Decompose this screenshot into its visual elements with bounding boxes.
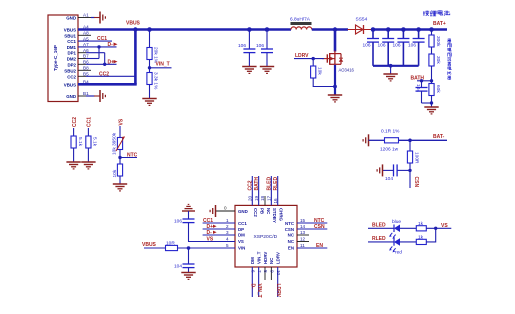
svg-text:SBU1: SBU1 — [64, 33, 76, 38]
junction bank node 3 — [401, 27, 406, 32]
svg-text:DM: DM — [250, 257, 255, 264]
svg-text:11: 11 — [300, 243, 305, 248]
svg-text:VBUS: VBUS — [142, 242, 157, 248]
resistor 20k 1% — [147, 47, 159, 64]
svg-text:CSN: CSN — [285, 227, 294, 232]
resistor 60k — [429, 84, 441, 96]
wire gate to resistor — [312, 59, 314, 66]
svg-text:RLED: RLED — [372, 236, 386, 242]
connector pin stubs and numbers — [78, 18, 91, 97]
svg-text:1k: 1k — [418, 221, 424, 227]
svg-text:VS: VS — [238, 239, 244, 244]
wire LDRV — [294, 58, 324, 60]
ground chain — [424, 107, 438, 114]
svg-text:VS: VS — [118, 118, 124, 125]
resistor 3.3k 1% — [147, 72, 159, 90]
IC bottom pin stubs 8 9 — [265, 267, 271, 280]
IC bottom pin wires — [252, 267, 277, 297]
ground at connector pin A1 — [91, 12, 105, 24]
capacitor 106 bank3 — [393, 30, 410, 66]
wire DP2 from B6 to D+ — [86, 63, 117, 65]
junction DP node — [103, 63, 106, 66]
svg-text:AO3416: AO3416 — [339, 68, 355, 73]
svg-text:60k: 60k — [435, 85, 441, 93]
capacitor 106 bank4 — [408, 30, 425, 66]
svg-text:NTC: NTC — [285, 221, 295, 226]
svg-text:CSN: CSN — [314, 224, 325, 230]
svg-text:5.1k: 5.1k — [77, 137, 83, 147]
svg-text:CC2: CC2 — [67, 74, 76, 79]
svg-text:NC: NC — [288, 233, 295, 238]
capacitor 106 (input 1) — [238, 30, 255, 67]
svg-text:7: 7 — [257, 270, 262, 273]
svg-text:VS: VS — [441, 223, 448, 229]
svg-text:A1: A1 — [83, 13, 89, 18]
svg-text:30k: 30k — [435, 56, 441, 64]
IC top pin wires — [252, 176, 277, 205]
svg-text:A7: A7 — [83, 42, 89, 47]
note 接锂电池 — [423, 10, 450, 16]
svg-text:300k: 300k — [435, 36, 441, 47]
svg-text:NC: NC — [266, 208, 271, 215]
IC U1 XSP20C/D body — [235, 205, 297, 267]
ground sense cap — [377, 164, 382, 176]
svg-text:DP2: DP2 — [67, 62, 76, 67]
junction chain bottom node — [430, 101, 433, 104]
svg-text:EN: EN — [316, 243, 323, 249]
capacitor 106 VIN — [174, 211, 195, 242]
ground VIN cap104 — [181, 273, 195, 280]
svg-text:8: 8 — [263, 270, 268, 273]
svg-text:CC2: CC2 — [253, 208, 258, 217]
svg-text:13: 13 — [300, 230, 306, 235]
svg-text:CSN: CSN — [413, 177, 419, 188]
svg-text:106: 106 — [174, 219, 182, 225]
wire CC1 from A5 — [78, 40, 112, 42]
capacitor 104 sense — [383, 164, 410, 182]
svg-text:106: 106 — [393, 43, 401, 49]
connector pin names — [64, 16, 77, 100]
junction bank node 2 — [386, 27, 391, 32]
wire sense drop — [409, 140, 411, 151]
junction source node — [333, 85, 337, 89]
ground CC2 res — [66, 162, 80, 169]
wire RLED to LED2 — [368, 241, 394, 243]
junction VIN node — [187, 246, 191, 250]
svg-text:5.1k: 5.1k — [92, 137, 98, 147]
svg-text:20: 20 — [248, 195, 253, 201]
wire bank gnd stem — [390, 66, 392, 74]
svg-text:D-: D- — [108, 42, 114, 48]
wire R2 up to VS node — [426, 228, 435, 242]
wire resistor to source — [313, 78, 335, 87]
LED D2 blue — [389, 219, 402, 239]
resistor 1k LED2 — [416, 235, 426, 245]
svg-text:VBUS: VBUS — [126, 21, 141, 27]
svg-text:VIN_T: VIN_T — [256, 251, 261, 264]
svg-text:D-: D- — [250, 284, 256, 290]
svg-text:LDRV: LDRV — [276, 252, 281, 264]
capacitor 104 VIN — [174, 248, 195, 273]
svg-text:VIN: VIN — [238, 246, 245, 251]
wire VBUS B4 thick — [78, 83, 137, 86]
svg-text:CC1: CC1 — [97, 36, 107, 42]
wire LED2 to R2 — [400, 241, 416, 243]
svg-text:CC1: CC1 — [87, 117, 93, 127]
resistor 5.1k CC2 — [71, 128, 83, 162]
junction VS node — [434, 227, 437, 230]
wire BAT+ rail — [373, 28, 447, 31]
svg-text:VIN_T: VIN_T — [156, 61, 170, 67]
wire inductor to drain node — [312, 28, 348, 31]
svg-text:19: 19 — [254, 195, 259, 201]
svg-text:106: 106 — [238, 43, 246, 49]
wire chain bottom — [431, 96, 433, 108]
svg-text:NC: NC — [269, 257, 274, 264]
junction NTC node — [118, 156, 121, 159]
wire 10R to VIN — [178, 247, 236, 249]
IC top pin numbers rotated — [248, 195, 279, 203]
svg-text:CHRG: CHRG — [279, 208, 284, 222]
svg-text:2: 2 — [226, 224, 229, 229]
svg-text:D-: D- — [207, 230, 213, 236]
svg-text:0: 0 — [224, 206, 227, 211]
svg-text:10: 10 — [276, 270, 281, 276]
resistor 30k — [429, 54, 441, 66]
wire VBUS rail top — [135, 28, 291, 31]
junction bank gnd node — [389, 64, 393, 68]
ground cap C2 — [260, 67, 274, 74]
wire VBUS A4 thick — [78, 28, 136, 31]
svg-text:D+: D+ — [108, 59, 115, 65]
junction BATH cap node — [420, 79, 423, 82]
svg-text:18: 18 — [260, 195, 265, 201]
svg-text:EN: EN — [288, 246, 294, 251]
wire 30k-BATH node — [431, 66, 433, 84]
IC right pin numbers — [300, 218, 306, 248]
svg-text:BLED: BLED — [372, 223, 386, 229]
wire VIN_T stub — [150, 67, 172, 69]
wire Rs to BAT- — [399, 139, 448, 141]
wire divider drop — [149, 30, 151, 48]
svg-text:CC2: CC2 — [99, 71, 109, 77]
net label D- with port arrow — [108, 42, 118, 48]
junction VIN_T node — [148, 66, 151, 69]
svg-text:LDRV: LDRV — [275, 284, 281, 298]
svg-text:6: 6 — [251, 270, 256, 273]
wire VBUS to 10R — [144, 247, 166, 249]
svg-text:10R: 10R — [166, 241, 175, 247]
junction DM node — [97, 45, 100, 48]
svg-text:SS54: SS54 — [356, 17, 368, 23]
svg-text:104: 104 — [385, 176, 393, 182]
svg-text:100R: 100R — [413, 152, 419, 164]
junction VBUS node — [133, 27, 137, 31]
svg-text:GND: GND — [238, 209, 248, 214]
ground CC1 res — [81, 162, 95, 169]
svg-text:6.8uH/7A: 6.8uH/7A — [290, 17, 311, 23]
IC left pin wires — [188, 223, 235, 242]
svg-text:106: 106 — [378, 43, 386, 49]
svg-text:BAT-: BAT- — [433, 134, 445, 140]
svg-text:VBUS: VBUS — [64, 82, 76, 87]
junction BATH chain node — [430, 79, 433, 82]
svg-text:NTC: NTC — [127, 152, 138, 158]
junction drain node — [333, 27, 337, 31]
svg-text:104: 104 — [174, 264, 182, 270]
svg-text:BATH: BATH — [254, 177, 260, 191]
diode D1 SS54 — [348, 17, 374, 34]
wire DM vertical A7-B7 — [98, 47, 100, 59]
junction cap C2 node — [265, 27, 270, 32]
svg-text:NC: NC — [288, 239, 295, 244]
svg-text:DM2: DM2 — [67, 57, 77, 62]
svg-text:12: 12 — [300, 236, 306, 241]
junction gate node — [312, 57, 315, 60]
inductor L1 6.8uH/7A — [290, 17, 312, 30]
svg-text:VBUS: VBUS — [64, 28, 76, 33]
svg-text:106: 106 — [363, 43, 371, 49]
svg-text:CC2: CC2 — [248, 180, 254, 190]
wire DM from A7 to D- — [78, 46, 117, 48]
junction bank node 1 — [371, 27, 376, 32]
svg-text:DP: DP — [238, 227, 244, 232]
svg-text:B6: B6 — [83, 60, 89, 65]
junction cap C1 node — [247, 27, 252, 32]
ground divider — [142, 99, 156, 106]
wire 300k-30k — [431, 47, 433, 54]
svg-text:LDRV: LDRV — [295, 53, 309, 59]
svg-text:BLED: BLED — [267, 177, 273, 191]
wire chain top — [431, 30, 433, 36]
IC right pin stubs 13 12 — [297, 235, 309, 242]
note 3 resistors vertical — [447, 39, 451, 80]
IC pin 0 GND stub — [216, 206, 235, 212]
resistor 1k LED1 — [416, 221, 426, 231]
svg-text:XSP20C/D: XSP20C/D — [254, 234, 278, 240]
svg-text:1: 1 — [226, 218, 229, 223]
svg-text:VIN_T: VIN_T — [256, 284, 262, 298]
junction bank node 4 — [416, 27, 421, 32]
svg-text:blue: blue — [392, 219, 401, 225]
net label D+ at IC — [207, 224, 217, 230]
net label D- at IC — [207, 230, 217, 236]
junction divider node — [147, 27, 152, 32]
svg-text:16: 16 — [273, 198, 278, 204]
svg-text:9: 9 — [270, 270, 275, 273]
wire bank bottom bus — [373, 65, 419, 67]
svg-text:CC1: CC1 — [67, 39, 76, 44]
IC inside top pin names rotated — [253, 208, 284, 223]
capacitor 106 (input 2) — [256, 30, 273, 67]
svg-text:DM: DM — [238, 233, 245, 238]
svg-text:14: 14 — [300, 224, 306, 229]
ground up VIN cap — [182, 204, 195, 211]
capacitor 106 bank1 — [363, 30, 380, 66]
wire BATH stub — [417, 80, 432, 82]
wire R to VS node — [426, 227, 451, 229]
net label D+ with port arrow — [108, 59, 118, 65]
junction sense node — [408, 139, 412, 143]
svg-text:15: 15 — [300, 218, 306, 223]
svg-text:10k: 10k — [112, 169, 118, 177]
svg-text:RLED: RLED — [273, 177, 279, 191]
LED D3 red — [389, 238, 402, 255]
wire BLED to LED1 — [368, 227, 394, 229]
svg-text:GND: GND — [66, 16, 76, 21]
svg-text:106: 106 — [408, 43, 416, 49]
resistor 100R — [407, 151, 419, 164]
ground source — [328, 95, 342, 102]
IC inside pin names — [238, 209, 295, 251]
IC right pin wires NTC CSN EN — [297, 223, 327, 248]
thermistor 10k 3950k — [112, 126, 125, 164]
svg-text:GND: GND — [66, 94, 76, 99]
svg-text:HDRV: HDRV — [263, 252, 268, 264]
IC top pin stub 18 — [264, 196, 266, 205]
svg-text:BAT+: BAT+ — [433, 21, 446, 27]
svg-text:3.3k 1%: 3.3k 1% — [153, 72, 159, 90]
wire to VIN_T node — [149, 60, 151, 73]
resistor 5.1k CC1 — [86, 128, 98, 162]
wire drain drop — [334, 30, 337, 52]
svg-text:DM1: DM1 — [67, 45, 77, 50]
svg-text:PB: PB — [259, 208, 264, 214]
svg-text:red: red — [395, 250, 402, 256]
svg-text:A8: A8 — [83, 31, 89, 36]
ground NTC — [113, 184, 127, 191]
svg-text:SBU2: SBU2 — [64, 68, 76, 73]
connector J1 Type-C_16P body — [48, 15, 78, 102]
svg-text:10k: 10k — [317, 67, 323, 75]
resistor 10R — [166, 241, 178, 251]
ground bank — [383, 74, 397, 81]
wire source down — [334, 65, 336, 95]
IC bottom pin numbers rotated — [251, 270, 282, 276]
svg-text:DP1: DP1 — [67, 51, 76, 56]
svg-text:4: 4 — [226, 236, 229, 241]
wire divider to ground — [149, 85, 151, 99]
resistor 0.1R 1% sense — [380, 129, 400, 153]
wire DM2 from B7 — [86, 58, 99, 60]
svg-text:17: 17 — [267, 195, 272, 201]
svg-text:3: 3 — [226, 230, 229, 235]
svg-text:1206 1w: 1206 1w — [380, 147, 399, 153]
junction chain top — [429, 27, 434, 32]
wire LED1 to R — [400, 227, 416, 229]
resistor 300k — [429, 35, 441, 47]
ground at connector pin B1 — [86, 90, 105, 102]
ground IC pin0 — [210, 205, 215, 217]
svg-text:STDBY: STDBY — [272, 208, 277, 223]
svg-text:VS: VS — [207, 237, 214, 243]
transistor Q1 AO3416 — [322, 51, 343, 65]
resistor 10k gate — [311, 66, 323, 78]
svg-text:CC2: CC2 — [72, 117, 78, 127]
wire gnd to Rs — [369, 139, 385, 141]
svg-text:106: 106 — [256, 43, 264, 49]
wire DP1 from A6 — [86, 52, 105, 54]
svg-text:Type-C_16P: Type-C_16P — [53, 45, 58, 71]
wire DP vertical A6-B6 — [104, 53, 106, 65]
svg-text:CC1: CC1 — [238, 221, 247, 226]
svg-text:104: 104 — [415, 84, 421, 92]
capacitor 106 bank2 — [378, 30, 395, 66]
wire CC2 from B5 — [86, 75, 135, 77]
IC left pin numbers — [226, 218, 229, 248]
resistor 10k NTC — [112, 164, 123, 184]
svg-text:5: 5 — [226, 243, 229, 248]
ground cap C1 — [242, 67, 256, 74]
wire VBUS vertical to B4 — [134, 30, 137, 85]
svg-text:0.1R 1%: 0.1R 1% — [381, 129, 400, 135]
svg-text:1k: 1k — [418, 235, 424, 241]
junction CSN node — [408, 169, 411, 172]
IC inside bottom pin names rotated — [250, 251, 281, 264]
svg-text:10k 3950k: 10k 3950k — [112, 132, 118, 155]
capacitor 104 battery — [415, 81, 432, 103]
wire 100R to CSN node — [409, 163, 411, 188]
ground sense left — [363, 134, 368, 146]
wire NTC stub — [120, 157, 137, 159]
svg-text:B8: B8 — [83, 66, 89, 71]
